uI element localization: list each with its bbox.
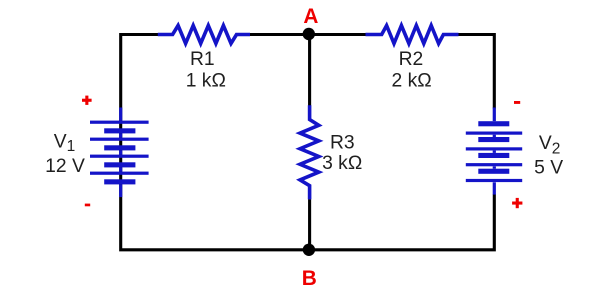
- svg-text:A: A: [303, 5, 318, 28]
- svg-text:12 V: 12 V: [45, 156, 85, 177]
- svg-text:1 kΩ: 1 kΩ: [186, 71, 226, 92]
- svg-text:5 V: 5 V: [534, 157, 563, 178]
- svg-text:3 kΩ: 3 kΩ: [322, 153, 362, 174]
- svg-text:2 kΩ: 2 kΩ: [392, 71, 432, 92]
- svg-text:R3: R3: [330, 132, 355, 153]
- svg-text:R2: R2: [399, 49, 424, 70]
- svg-text:B: B: [302, 267, 317, 290]
- svg-text:R1: R1: [190, 49, 215, 70]
